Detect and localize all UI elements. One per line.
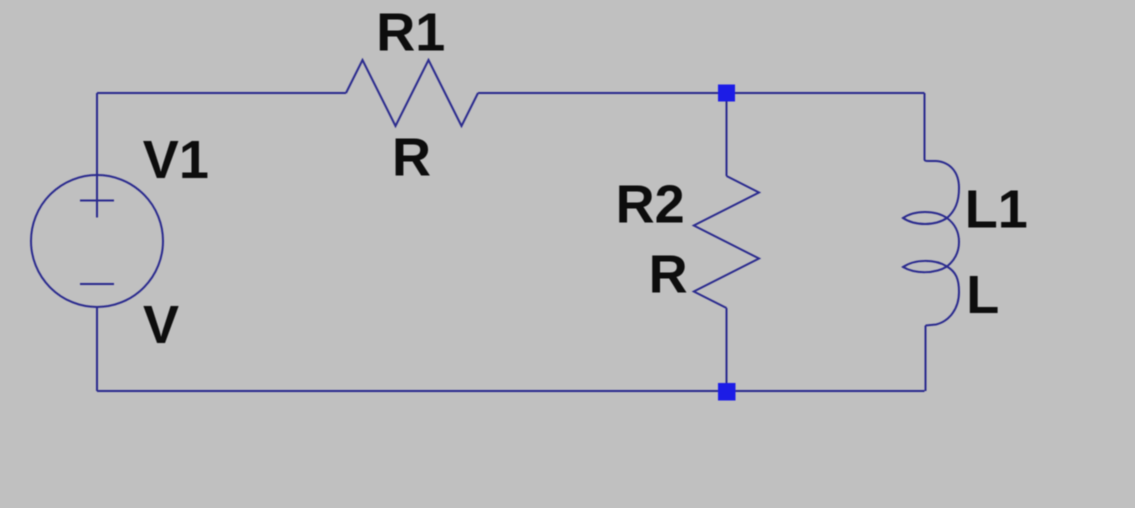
label L value of L1 [966,265,999,325]
wire left vertical into source [96,93,98,218]
wire top left horizontal [97,92,346,94]
svg-text:L1: L1 [965,180,1028,240]
minus sign of V1 [80,283,114,285]
wire from top node down to R2 [726,101,728,176]
label R1 [376,3,445,63]
svg-text:R1: R1 [376,3,445,63]
wire from R2 down to bottom node [726,308,728,383]
label R value of R1 [392,128,431,188]
resistor R1 [346,60,478,126]
label R2 [616,175,685,235]
wire right vertical top [924,93,926,160]
resistor R2 [694,176,759,308]
wire bottom horizontal [97,390,925,392]
inductor L1 [903,160,959,326]
plus sign of V1 [80,184,114,218]
label V1 [143,130,209,190]
node junction top [718,85,735,102]
wire top right horizontal [478,92,925,94]
voltage source V1 circle [31,175,163,307]
svg-text:R2: R2 [616,175,685,235]
svg-text:V1: V1 [143,130,209,190]
label V value of V1 [143,295,179,355]
svg-text:R: R [392,128,431,188]
label L1 [965,180,1028,240]
wire right vertical bottom [925,326,927,392]
svg-text:V: V [143,295,179,355]
wire below source vertical [96,307,98,391]
svg-text:L: L [966,265,999,325]
svg-text:R: R [649,245,688,305]
node junction bottom [718,383,736,401]
label R value of R2 [649,245,688,305]
